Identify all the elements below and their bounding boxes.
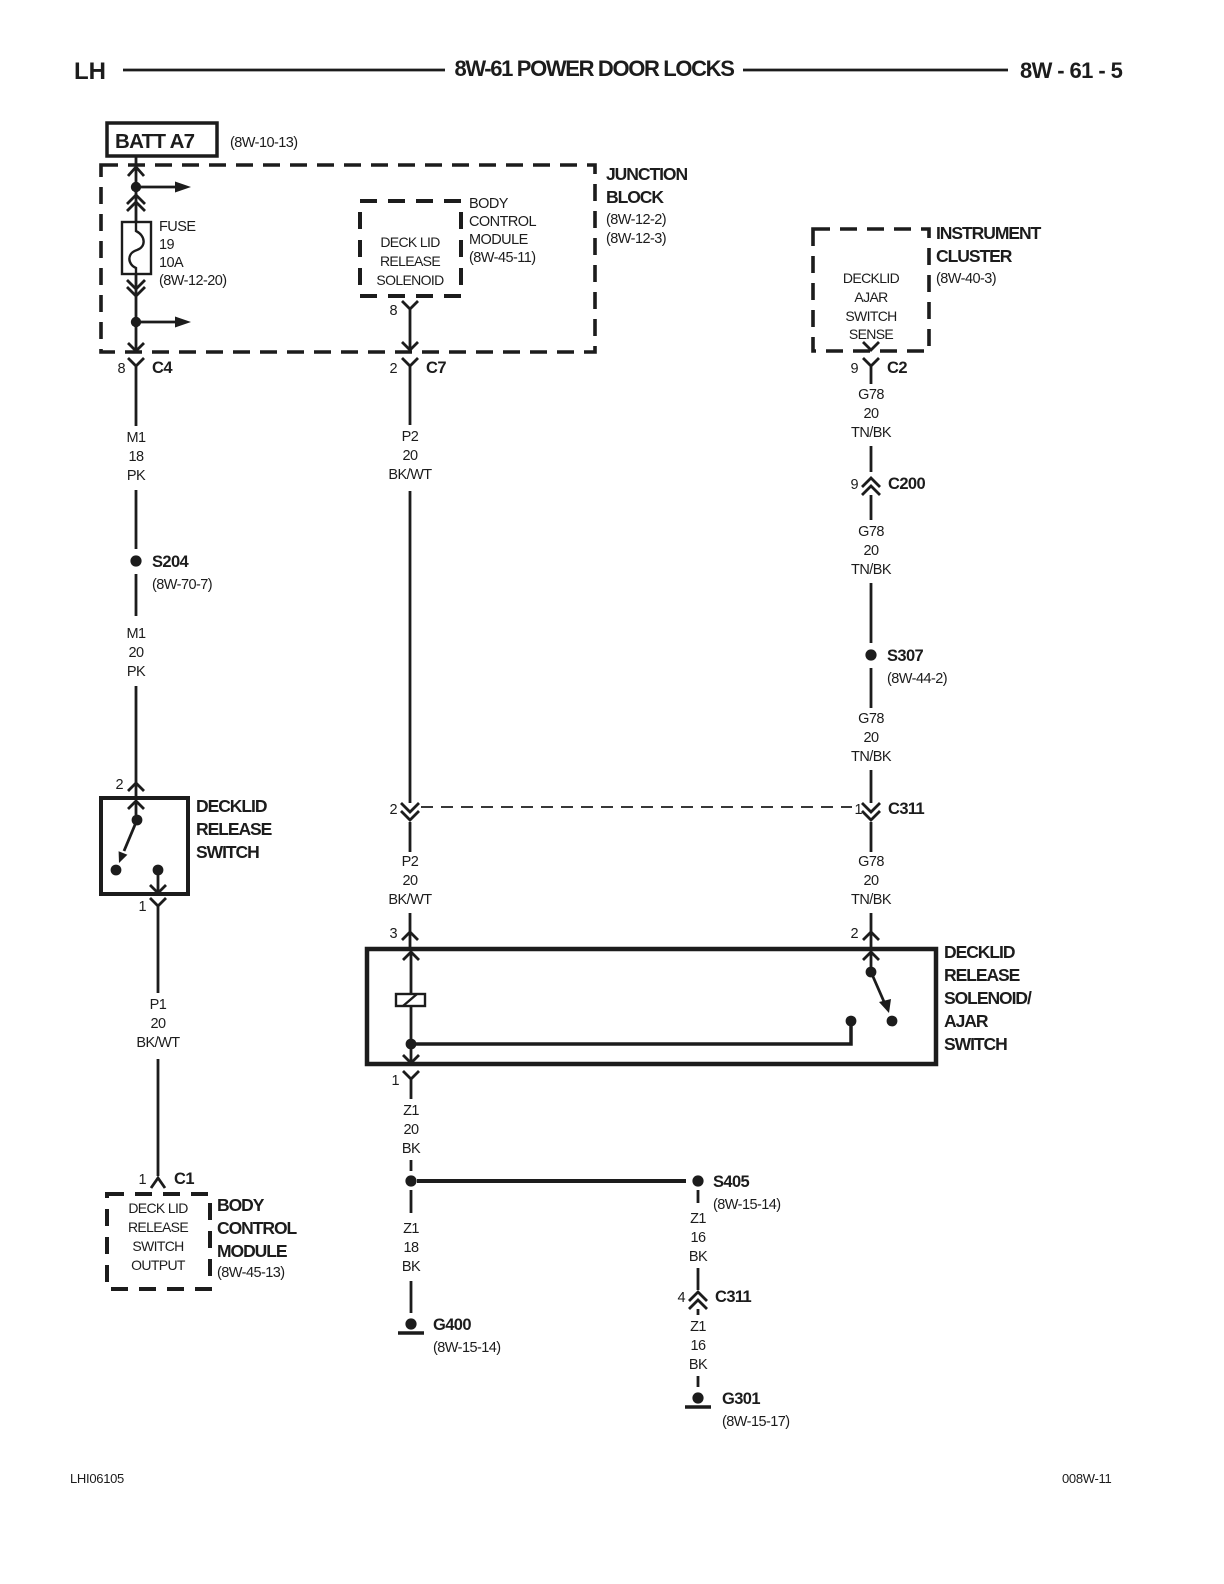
ajar switch throw contact <box>887 1016 898 1027</box>
svg-text:INSTRUMENT: INSTRUMENT <box>936 223 1042 243</box>
connector C4 pin 8 <box>117 358 173 380</box>
svg-text:BATT A7: BATT A7 <box>115 130 195 153</box>
arrow down at cluster box bottom edge <box>863 342 879 350</box>
svg-text:Z1: Z1 <box>690 1211 706 1227</box>
wire P1 to C1 <box>157 1059 160 1176</box>
label Z1 20 BK <box>402 1103 421 1157</box>
svg-text:P2: P2 <box>402 429 419 445</box>
wire ajar switch common run <box>416 1026 851 1044</box>
svg-text:20: 20 <box>402 448 418 464</box>
header rule left <box>123 69 445 72</box>
svg-text:M1: M1 <box>126 430 146 446</box>
svg-text:SWITCH: SWITCH <box>132 1238 183 1254</box>
svg-text:20: 20 <box>402 873 418 889</box>
label P2 20 BK/WT <box>388 429 432 483</box>
connector C311 pin 1 (double chevron down) <box>854 800 924 820</box>
ajar switch blade <box>871 972 891 1013</box>
svg-text:(8W-40-3): (8W-40-3) <box>936 271 996 287</box>
BCM input label DECK LID RELEASE SWITCH OUTPUT <box>128 1200 188 1273</box>
svg-text:M1: M1 <box>126 626 146 642</box>
instrument cluster label <box>936 223 1042 287</box>
svg-text:(8W-12-20): (8W-12-20) <box>159 273 227 289</box>
wire to G400 <box>410 1281 413 1313</box>
wire P2 below C311 <box>409 822 412 852</box>
splice S204 <box>130 553 212 593</box>
arrow down at junction block bottom edge (C7) <box>402 342 418 350</box>
svg-text:TN/BK: TN/BK <box>851 749 892 765</box>
arrow down at junction block bottom edge <box>128 343 144 351</box>
svg-text:20: 20 <box>403 1122 419 1138</box>
label G78 20 TN/BK (2) <box>851 524 892 578</box>
connector C311 dashed boundary line <box>421 806 852 808</box>
svg-text:RELEASE: RELEASE <box>196 819 272 839</box>
wire to junction block bottom edge <box>135 322 138 351</box>
svg-text:20: 20 <box>863 730 879 746</box>
wire to solenoid pin 2 <box>870 913 873 948</box>
splice S405 <box>692 1173 780 1213</box>
svg-text:19: 19 <box>159 237 175 253</box>
svg-text:TN/BK: TN/BK <box>851 892 892 908</box>
svg-text:G78: G78 <box>858 387 884 403</box>
svg-text:JUNCTION: JUNCTION <box>606 164 687 184</box>
svg-text:C1: C1 <box>174 1170 194 1188</box>
label G78 20 TN/BK <box>851 387 892 441</box>
arrow up at junction block top edge <box>128 167 144 176</box>
svg-text:(8W-70-7): (8W-70-7) <box>152 577 212 593</box>
svg-text:9: 9 <box>850 361 858 377</box>
ajar switch fixed contact <box>846 1016 857 1027</box>
svg-text:C2: C2 <box>887 359 907 377</box>
svg-text:1: 1 <box>138 899 146 915</box>
body control module dashed box <box>107 1194 210 1289</box>
svg-text:BK/WT: BK/WT <box>388 467 432 483</box>
wire below S307 <box>870 668 873 708</box>
svg-text:BK: BK <box>689 1249 708 1265</box>
svg-text:1: 1 <box>854 802 862 818</box>
node coil/switch common <box>406 1039 417 1050</box>
wire into S307 <box>870 583 873 643</box>
svg-text:SOLENOID: SOLENOID <box>376 272 444 288</box>
svg-text:C4: C4 <box>152 359 173 377</box>
svg-text:BK/WT: BK/WT <box>136 1035 180 1051</box>
wire Z1 20 BK <box>410 1095 413 1099</box>
solenoid label <box>944 942 1032 1054</box>
wire into S204 <box>135 490 138 549</box>
wire below fuse <box>135 274 138 322</box>
body control module label <box>217 1195 298 1281</box>
svg-text:SWITCH: SWITCH <box>196 842 259 862</box>
svg-text:(8W-15-14): (8W-15-14) <box>433 1340 501 1356</box>
svg-text:G301: G301 <box>722 1390 760 1408</box>
wire below C311 <box>870 822 873 852</box>
ground G301 <box>685 1390 790 1430</box>
svg-text:BK/WT: BK/WT <box>388 892 432 908</box>
svg-text:8W-61 POWER DOOR LOCKS: 8W-61 POWER DOOR LOCKS <box>454 56 734 81</box>
wire from BATT A7 into junction block <box>135 156 138 187</box>
svg-text:18: 18 <box>403 1240 419 1256</box>
solenoid coil L1 <box>396 994 425 1006</box>
label Z1 18 BK <box>402 1221 421 1275</box>
svg-text:(8W-44-2): (8W-44-2) <box>887 671 947 687</box>
label M1 18 PK <box>126 430 146 484</box>
label P2 20 BK/WT (lower) <box>388 854 432 908</box>
svg-text:8W - 61 - 5: 8W - 61 - 5 <box>1020 58 1123 83</box>
svg-text:CONTROL: CONTROL <box>217 1218 298 1238</box>
svg-text:S204: S204 <box>152 553 190 571</box>
svg-text:PK: PK <box>127 664 146 680</box>
BCM deck lid release solenoid driver dashed box <box>360 201 461 296</box>
svg-text:AJAR: AJAR <box>854 289 888 305</box>
wire to decklid release switch <box>135 686 138 798</box>
svg-text:20: 20 <box>863 543 879 559</box>
svg-text:C311: C311 <box>715 1288 752 1306</box>
decklid release solenoid / ajar switch box <box>367 949 936 1064</box>
label M1 20 PK <box>126 626 146 680</box>
label G78 20 TN/BK (4) <box>851 854 892 908</box>
svg-text:G78: G78 <box>858 854 884 870</box>
connector C311 pin 4 (double chevron up) <box>677 1288 751 1309</box>
instrument cluster dashed box <box>813 229 929 351</box>
wire to C311 pin 4 <box>697 1268 700 1290</box>
header rule right <box>743 69 1008 72</box>
label Z1 16 BK <box>689 1211 708 1265</box>
svg-text:(8W-15-17): (8W-15-17) <box>722 1414 790 1430</box>
arrow down at solenoid box bottom edge <box>403 1055 419 1063</box>
svg-text:C200: C200 <box>888 475 925 493</box>
svg-text:RELEASE: RELEASE <box>944 965 1020 985</box>
svg-text:C7: C7 <box>426 359 446 377</box>
connector C311 pin 2 (double chevron down) <box>389 802 419 820</box>
svg-text:008W-11: 008W-11 <box>1062 1471 1112 1486</box>
wire Z1 16 BK below C311 <box>697 1309 700 1315</box>
svg-text:18: 18 <box>128 449 144 465</box>
svg-text:SWITCH: SWITCH <box>944 1034 1007 1054</box>
solenoid coil branch <box>403 952 419 994</box>
svg-text:Z1: Z1 <box>403 1103 419 1119</box>
wire to solenoid pin 3 <box>409 913 412 948</box>
svg-text:MODULE: MODULE <box>217 1241 287 1261</box>
switch pin 2 <box>115 777 144 793</box>
svg-text:8: 8 <box>117 361 125 377</box>
switch pin 1 <box>138 898 166 920</box>
svg-text:2: 2 <box>389 361 397 377</box>
wire to S405 node <box>410 1160 413 1171</box>
svg-text:BK: BK <box>402 1259 421 1275</box>
svg-text:MODULE: MODULE <box>469 232 529 248</box>
svg-text:DECKLID: DECKLID <box>944 942 1015 962</box>
svg-text:2: 2 <box>115 777 123 793</box>
label P1 20 BK/WT <box>136 997 180 1051</box>
svg-text:BK: BK <box>402 1141 421 1157</box>
svg-text:BK: BK <box>689 1357 708 1373</box>
svg-text:(8W-15-14): (8W-15-14) <box>713 1197 781 1213</box>
svg-text:TN/BK: TN/BK <box>851 425 892 441</box>
svg-text:SWITCH: SWITCH <box>845 308 896 324</box>
svg-text:G78: G78 <box>858 711 884 727</box>
solenoid pin 3 <box>389 926 418 942</box>
svg-text:(8W-45-13): (8W-45-13) <box>217 1265 285 1281</box>
label Z1 16 BK (lower) <box>689 1319 708 1373</box>
svg-text:TN/BK: TN/BK <box>851 562 892 578</box>
svg-text:C311: C311 <box>888 800 925 818</box>
wire P1 20 BK/WT (upper) <box>157 920 160 993</box>
svg-text:AJAR: AJAR <box>944 1011 989 1031</box>
svg-text:1: 1 <box>391 1073 399 1089</box>
svg-text:RELEASE: RELEASE <box>380 253 440 269</box>
svg-text:CLUSTER: CLUSTER <box>936 246 1013 266</box>
svg-text:16: 16 <box>690 1230 706 1246</box>
connector C2 pin 9 <box>850 358 907 380</box>
wire to G301 <box>697 1376 700 1387</box>
svg-text:G78: G78 <box>858 524 884 540</box>
svg-text:2: 2 <box>389 802 397 818</box>
BCM pin 8 <box>389 301 418 323</box>
wire Z1 18 BK below node <box>410 1190 413 1213</box>
svg-text:20: 20 <box>863 406 879 422</box>
svg-text:LH: LH <box>74 58 106 85</box>
solenoid pin 2 <box>850 926 879 942</box>
svg-text:1: 1 <box>138 1172 146 1188</box>
decklid release switch label <box>196 796 272 862</box>
svg-text:FUSE: FUSE <box>159 219 196 235</box>
svg-text:20: 20 <box>128 645 144 661</box>
svg-text:BODY: BODY <box>469 196 509 212</box>
svg-text:3: 3 <box>389 926 397 942</box>
BCM output label DECK LID RELEASE SOLENOID <box>376 234 444 288</box>
node at S405 takeoff <box>405 1175 416 1186</box>
feed arrow right (top) <box>141 182 191 193</box>
svg-text:DECKLID: DECKLID <box>843 270 900 286</box>
svg-text:P1: P1 <box>150 997 167 1013</box>
junction block label <box>606 164 687 247</box>
svg-text:9: 9 <box>850 477 858 493</box>
svg-text:DECK LID: DECK LID <box>128 1200 188 1216</box>
cluster input label DECKLID AJAR SWITCH SENSE <box>843 270 900 342</box>
svg-text:SOLENOID/: SOLENOID/ <box>944 988 1032 1008</box>
svg-text:2: 2 <box>850 926 858 942</box>
node junction above fuse <box>131 182 141 192</box>
wire to C200 <box>870 446 873 472</box>
svg-text:SENSE: SENSE <box>849 326 894 342</box>
svg-text:LHI06105: LHI06105 <box>70 1471 124 1486</box>
wire M1 18 PK (upper) <box>135 380 138 426</box>
svg-text:(8W-10-13): (8W-10-13) <box>230 135 298 151</box>
svg-text:PK: PK <box>127 468 146 484</box>
svg-text:(8W-45-11): (8W-45-11) <box>469 250 535 266</box>
wire Z1 16 BK below S405 <box>697 1190 700 1203</box>
svg-text:(8W-12-3): (8W-12-3) <box>606 231 666 247</box>
node junction below fuse <box>131 317 141 327</box>
svg-text:RELEASE: RELEASE <box>128 1219 188 1235</box>
connector C7 pin 2 <box>389 358 446 380</box>
svg-text:(8W-12-2): (8W-12-2) <box>606 212 666 228</box>
wire dot to fuse <box>135 192 138 222</box>
svg-text:DECK LID: DECK LID <box>380 234 440 250</box>
svg-text:20: 20 <box>150 1016 166 1032</box>
svg-text:P2: P2 <box>402 854 419 870</box>
wire pin8 to junction block edge <box>409 323 412 350</box>
svg-text:OUTPUT: OUTPUT <box>131 1257 186 1273</box>
connector C200 pin 9 (double chevron up) <box>850 475 925 495</box>
svg-text:DECKLID: DECKLID <box>196 796 267 816</box>
svg-text:Z1: Z1 <box>403 1221 419 1237</box>
solenoid pin 1 <box>391 1071 419 1095</box>
svg-text:16: 16 <box>690 1338 706 1354</box>
svg-text:Z1: Z1 <box>690 1319 706 1335</box>
svg-text:BODY: BODY <box>217 1195 265 1215</box>
label G78 20 TN/BK (3) <box>851 711 892 765</box>
body control module label (top) <box>469 196 537 266</box>
svg-text:20: 20 <box>863 873 879 889</box>
feed arrow right (bottom) <box>141 317 191 328</box>
ajar switch input from pin 2 <box>863 952 879 967</box>
connector C1 pin 1 <box>138 1170 194 1188</box>
svg-text:S307: S307 <box>887 647 924 665</box>
fuse clip upper (double chevron up) <box>127 195 145 211</box>
wire to C311 pin 1 <box>870 770 873 803</box>
wire G78 20 TN/BK (1) <box>870 380 873 384</box>
splice S307 <box>865 647 947 687</box>
wire coil to node <box>410 1006 413 1063</box>
svg-text:10A: 10A <box>159 255 184 271</box>
fuse clip lower (double chevron down) <box>127 280 145 296</box>
svg-text:G400: G400 <box>433 1316 471 1334</box>
fuse F19 body <box>122 222 151 274</box>
wire below C200 <box>870 495 873 520</box>
ground G400 <box>398 1316 501 1356</box>
svg-text:BLOCK: BLOCK <box>606 187 664 207</box>
wire P2 20 BK/WT (upper) <box>409 380 412 425</box>
svg-text:CONTROL: CONTROL <box>469 214 537 230</box>
svg-text:4: 4 <box>677 1290 685 1306</box>
svg-text:S405: S405 <box>713 1173 750 1191</box>
battery feed BATT A7 <box>107 123 217 156</box>
fuse value label FUSE 19 10A <box>159 219 227 289</box>
ajar switch pivot <box>866 967 877 978</box>
junction block dashed outline <box>101 165 595 352</box>
wire P2 long run to C311 <box>409 491 412 803</box>
svg-text:8: 8 <box>389 303 397 319</box>
wire M1 20 PK below S204 <box>135 574 138 616</box>
wire splice run to S405 <box>417 1179 686 1183</box>
decklid release switch S1 <box>101 798 188 894</box>
